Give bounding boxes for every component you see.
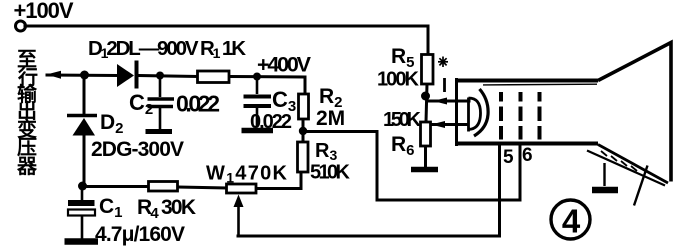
wire bottom bus from W1 wiper to pin5 — [238, 144, 500, 236]
ground (C2) — [146, 129, 173, 134]
svg-text:2DG-300V: 2DG-300V — [91, 138, 184, 161]
wire top bus from +100V to R5 — [25, 26, 428, 55]
svg-text:+400V: +400V — [257, 53, 312, 77]
CRT anode slash — [634, 166, 648, 206]
figure number 4 circled — [551, 200, 590, 240]
capacitor C3 — [244, 77, 272, 128]
wire R4 to W1 — [178, 187, 226, 188]
CRT grid dashed lines — [501, 92, 540, 140]
svg-text:0.022: 0.022 — [250, 111, 292, 133]
svg-text:R4 30K: R4 30K — [137, 196, 196, 222]
wire cathode lead — [427, 100, 469, 103]
svg-text:0.022: 0.022 — [176, 91, 220, 117]
svg-text:4: 4 — [562, 203, 581, 240]
wire D1 cathode to R1 — [139, 76, 197, 77]
label asterisk — [438, 57, 448, 68]
arrow to line output transformer — [47, 71, 62, 79]
arrow on grid lead — [431, 121, 445, 128]
svg-text:4.7μ/160V: 4.7μ/160V — [95, 223, 185, 246]
node junction dot bottom row — [78, 182, 87, 191]
svg-text:100K: 100K — [377, 69, 420, 91]
wire bottom row left — [82, 185, 148, 188]
svg-text:D12DL—900V R1 1K: D12DL—900V R1 1K — [88, 37, 246, 61]
resistor R3 — [298, 142, 309, 172]
wire R1 to R2 corner — [229, 77, 305, 95]
node junction dot R2/R3 — [299, 127, 307, 135]
resistor R4 — [149, 182, 178, 192]
wire grid feed — [305, 132, 520, 201]
node junction dot C2 top — [156, 72, 164, 80]
wire R6 to ground — [424, 146, 427, 167]
svg-text:5: 5 — [503, 147, 514, 168]
wire R3 top to node — [302, 119, 305, 142]
label pin 1 — [443, 78, 446, 92]
node junction dot +400V — [253, 73, 261, 81]
CRT heater curve — [474, 89, 488, 136]
arrow on cathode lead — [433, 98, 447, 105]
node junction dot at D2 top — [80, 71, 89, 80]
svg-text:510K: 510K — [310, 162, 351, 184]
svg-text:2M: 2M — [316, 107, 345, 130]
diode D1 — [117, 61, 137, 89]
resistor R2 — [299, 94, 309, 119]
svg-text:W1470K: W1470K — [206, 163, 288, 186]
ground (R6) — [411, 167, 438, 173]
resistor R5 — [422, 55, 434, 85]
wire grid1 lead — [430, 123, 468, 126]
CRT coating hatch ticks — [601, 151, 637, 171]
wire R5 bottom to R6 — [426, 84, 427, 122]
ground (C3) — [242, 128, 274, 134]
CRT neck outline — [455, 78, 598, 146]
ground (C1) — [65, 238, 99, 245]
resistor R6 — [421, 122, 431, 146]
node +100V terminal — [16, 21, 26, 31]
svg-text:6: 6 — [522, 145, 533, 166]
wire main row y=75.5 — [47, 74, 117, 78]
potentiometer W1 — [227, 184, 257, 236]
capacitor C2 — [148, 76, 175, 130]
wire D2 branch down — [83, 76, 86, 115]
capacitor C1 (electrolytic) — [68, 186, 95, 239]
svg-text:+100V: +100V — [14, 0, 74, 23]
node junction dot R5/R6 — [421, 92, 430, 101]
label to line output transformer (vertical) — [16, 49, 38, 178]
CRT coating ground — [592, 163, 618, 190]
CRT flare and face — [587, 43, 671, 186]
CRT cathode D — [469, 98, 481, 132]
wire D2 to bottom row — [83, 135, 86, 186]
wire W1 to R3 — [256, 172, 301, 189]
resistor R1 — [198, 71, 230, 83]
svg-text:器: 器 — [16, 155, 38, 178]
svg-text:150K: 150K — [383, 109, 422, 131]
diode D2 — [67, 116, 97, 136]
